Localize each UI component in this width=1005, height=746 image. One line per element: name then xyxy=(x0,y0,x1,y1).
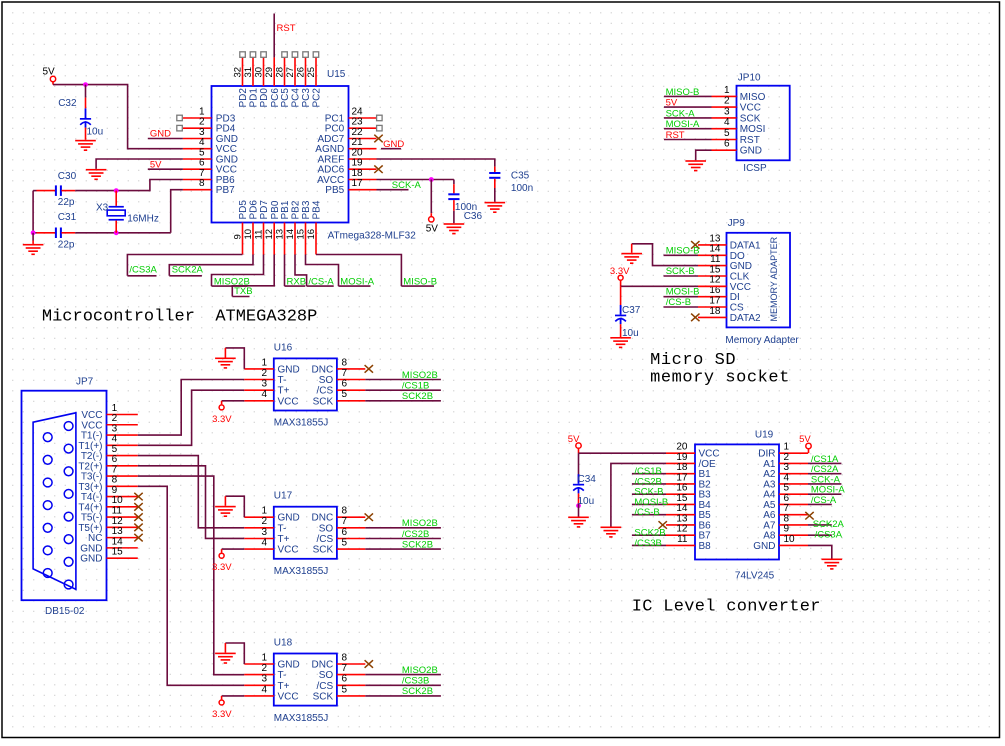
svg-text:2: 2 xyxy=(261,516,267,527)
svg-text:9: 9 xyxy=(233,234,244,239)
svg-text:SCK2B: SCK2B xyxy=(402,391,433,402)
svg-text:PB7: PB7 xyxy=(216,185,235,196)
svg-text:C35: C35 xyxy=(511,171,530,182)
svg-text:PB2: PB2 xyxy=(291,200,302,219)
svg-text:U17: U17 xyxy=(274,491,293,502)
svg-text:SCK: SCK xyxy=(740,113,761,124)
svg-text:MISO-B: MISO-B xyxy=(666,245,700,256)
svg-text:C30: C30 xyxy=(58,171,77,182)
svg-text:T-: T- xyxy=(278,375,287,386)
svg-text:6: 6 xyxy=(342,527,348,538)
svg-text:PB1: PB1 xyxy=(280,200,291,219)
svg-text:GND: GND xyxy=(383,139,404,150)
svg-text:SO: SO xyxy=(319,523,334,534)
svg-text:RST: RST xyxy=(277,23,296,34)
svg-text:GND: GND xyxy=(730,261,752,272)
svg-text:MOSI-A: MOSI-A xyxy=(340,276,374,287)
svg-text:32: 32 xyxy=(233,67,244,78)
svg-text:PC3: PC3 xyxy=(301,88,312,108)
svg-text:PC4: PC4 xyxy=(291,88,302,108)
svg-text:/CS-B: /CS-B xyxy=(666,297,691,308)
svg-text:5V: 5V xyxy=(43,67,56,78)
svg-text:PB4: PB4 xyxy=(312,200,323,219)
svg-text:2: 2 xyxy=(261,368,267,379)
svg-text:U15: U15 xyxy=(327,69,346,80)
svg-text:SCK-A: SCK-A xyxy=(666,108,696,119)
svg-text:4: 4 xyxy=(261,389,267,400)
svg-text:RXB: RXB xyxy=(287,276,307,287)
svg-text:SCK2A: SCK2A xyxy=(172,264,204,275)
svg-text:U18: U18 xyxy=(274,637,293,648)
svg-text:18: 18 xyxy=(709,306,721,317)
svg-text:T-: T- xyxy=(278,670,287,681)
svg-text:3: 3 xyxy=(261,674,267,685)
svg-text:7: 7 xyxy=(342,368,348,379)
svg-text:6: 6 xyxy=(724,139,730,150)
svg-text:SO: SO xyxy=(319,670,334,681)
svg-text:MISO: MISO xyxy=(740,92,766,103)
svg-text:RST: RST xyxy=(666,130,685,141)
svg-text:5: 5 xyxy=(342,684,348,695)
svg-text:GND: GND xyxy=(278,660,300,671)
svg-text:6: 6 xyxy=(342,674,348,685)
svg-text:PC5: PC5 xyxy=(280,88,291,108)
svg-text:JP10: JP10 xyxy=(738,72,761,83)
svg-text:PD6: PD6 xyxy=(249,200,260,220)
svg-text:B8: B8 xyxy=(699,541,712,552)
svg-text:14: 14 xyxy=(285,229,296,240)
svg-text:/CS3A: /CS3A xyxy=(815,529,843,540)
svg-text:RST: RST xyxy=(740,135,760,146)
svg-text:SCK: SCK xyxy=(313,396,334,407)
svg-text:SCK2B: SCK2B xyxy=(402,686,433,697)
svg-text:VCC: VCC xyxy=(278,396,299,407)
svg-text:MOSI: MOSI xyxy=(740,124,766,135)
svg-text:3: 3 xyxy=(261,527,267,538)
svg-text:MISO2B: MISO2B xyxy=(402,518,438,529)
svg-text:28: 28 xyxy=(275,67,286,78)
svg-text:10u: 10u xyxy=(578,496,595,507)
svg-text:/CS-A: /CS-A xyxy=(811,495,837,506)
svg-text:10: 10 xyxy=(784,534,796,545)
svg-text:/CS3A: /CS3A xyxy=(129,264,157,275)
svg-text:GND: GND xyxy=(150,129,171,140)
svg-text:SCK: SCK xyxy=(313,545,334,556)
svg-text:25: 25 xyxy=(306,67,317,78)
svg-text:2: 2 xyxy=(261,663,267,674)
svg-text:/CS: /CS xyxy=(317,681,334,692)
svg-text:/CS-A: /CS-A xyxy=(308,276,334,287)
svg-text:/CS3B: /CS3B xyxy=(402,676,429,687)
svg-text:MAX31855J: MAX31855J xyxy=(274,713,328,724)
svg-text:5V: 5V xyxy=(150,160,162,171)
svg-text:15: 15 xyxy=(296,229,307,240)
svg-text:C36: C36 xyxy=(464,211,483,222)
svg-text:C31: C31 xyxy=(58,212,77,223)
svg-text:3: 3 xyxy=(724,106,730,117)
svg-text:MEMORY ADAPTER: MEMORY ADAPTER xyxy=(769,236,779,321)
svg-text:SCK2B: SCK2B xyxy=(402,539,433,550)
svg-text:/CS-B: /CS-B xyxy=(634,507,659,518)
svg-text:11: 11 xyxy=(710,254,721,265)
svg-text:GND: GND xyxy=(278,513,300,524)
svg-text:PD2: PD2 xyxy=(238,88,249,108)
svg-text:T+: T+ xyxy=(278,681,290,692)
svg-text:Memory Adapter: Memory Adapter xyxy=(725,335,799,346)
svg-text:JP7: JP7 xyxy=(76,376,94,387)
svg-text:8: 8 xyxy=(199,178,205,189)
svg-text:VCC: VCC xyxy=(730,282,751,293)
svg-text:27: 27 xyxy=(285,67,296,78)
svg-text:Micro SD: Micro SD xyxy=(650,351,736,370)
svg-text:T+: T+ xyxy=(278,534,290,545)
svg-text:MAX31855J: MAX31855J xyxy=(274,418,328,429)
svg-text:4: 4 xyxy=(724,117,730,128)
svg-text:U16: U16 xyxy=(274,342,293,353)
svg-text:100n: 100n xyxy=(511,183,533,194)
svg-text:1: 1 xyxy=(261,357,267,368)
svg-text:C32: C32 xyxy=(58,98,77,109)
svg-text:PD5: PD5 xyxy=(238,200,249,220)
svg-text:3.3V: 3.3V xyxy=(212,709,232,720)
svg-text:/CS3B: /CS3B xyxy=(634,538,661,549)
svg-text:31: 31 xyxy=(243,67,254,78)
svg-text:T+: T+ xyxy=(278,386,290,397)
svg-text:5: 5 xyxy=(342,389,348,400)
svg-text:DB15-02: DB15-02 xyxy=(45,606,85,617)
svg-text:TXB: TXB xyxy=(234,286,252,297)
svg-text:MISO-B: MISO-B xyxy=(403,276,437,287)
svg-text:GND: GND xyxy=(740,146,762,157)
svg-text:4: 4 xyxy=(261,538,267,549)
svg-text:22p: 22p xyxy=(58,239,75,250)
svg-text:C34: C34 xyxy=(578,474,597,485)
svg-text:DNC: DNC xyxy=(312,364,334,375)
svg-text:MISO-B: MISO-B xyxy=(666,87,700,98)
svg-text:7: 7 xyxy=(342,663,348,674)
svg-text:MAX31855J: MAX31855J xyxy=(274,566,328,577)
svg-text:PB3: PB3 xyxy=(301,200,312,219)
svg-text:C37: C37 xyxy=(622,305,641,316)
svg-text:U19: U19 xyxy=(755,429,774,440)
svg-text:SO: SO xyxy=(319,375,334,386)
svg-text:6: 6 xyxy=(342,379,348,390)
svg-text:PB5: PB5 xyxy=(325,185,344,196)
svg-text:26: 26 xyxy=(296,67,307,78)
svg-text:/CS2B: /CS2B xyxy=(402,529,429,540)
svg-text:SCK-A: SCK-A xyxy=(392,180,422,191)
svg-text:SCK-B: SCK-B xyxy=(666,266,695,277)
svg-text:T-: T- xyxy=(278,523,287,534)
svg-text:13: 13 xyxy=(709,233,721,244)
svg-text:GND: GND xyxy=(278,364,300,375)
svg-text:3: 3 xyxy=(261,379,267,390)
svg-text:PD0: PD0 xyxy=(259,88,270,108)
svg-text:VCC: VCC xyxy=(278,545,299,556)
svg-text:1: 1 xyxy=(724,85,730,96)
svg-text:DATA1: DATA1 xyxy=(730,240,761,251)
svg-text:JP9: JP9 xyxy=(728,218,746,229)
svg-text:16MHz: 16MHz xyxy=(127,213,159,224)
svg-text:MISO2B: MISO2B xyxy=(402,665,438,676)
svg-text:10: 10 xyxy=(243,229,254,240)
svg-text:5: 5 xyxy=(724,128,730,139)
svg-text:12: 12 xyxy=(709,275,721,286)
svg-text:/CS: /CS xyxy=(317,534,334,545)
svg-text:PC2: PC2 xyxy=(312,88,323,108)
svg-text:30: 30 xyxy=(254,67,265,78)
svg-text:4: 4 xyxy=(261,684,267,695)
svg-text:10u: 10u xyxy=(87,127,104,138)
svg-text:ATmega328-MLF32: ATmega328-MLF32 xyxy=(328,230,417,241)
svg-text:/CS1B: /CS1B xyxy=(402,381,429,392)
svg-text:2: 2 xyxy=(724,96,730,107)
svg-text:10u: 10u xyxy=(622,328,639,339)
svg-text:Microcontroller ATMEGA328P: Microcontroller ATMEGA328P xyxy=(42,307,317,326)
svg-text:PD1: PD1 xyxy=(249,88,260,108)
svg-text:1: 1 xyxy=(261,506,267,517)
svg-text:SCK: SCK xyxy=(313,691,334,702)
svg-text:1: 1 xyxy=(261,652,267,663)
svg-text:22p: 22p xyxy=(58,197,75,208)
svg-text:5: 5 xyxy=(342,538,348,549)
svg-text:DATA2: DATA2 xyxy=(730,313,761,324)
svg-text:13: 13 xyxy=(275,229,286,240)
svg-text:PD7: PD7 xyxy=(259,200,270,220)
svg-text:CS: CS xyxy=(730,303,744,314)
svg-text:VCC: VCC xyxy=(278,691,299,702)
svg-text:GND: GND xyxy=(80,554,102,565)
svg-text:3.3V: 3.3V xyxy=(212,414,232,425)
svg-text:memory socket: memory socket xyxy=(650,369,790,388)
svg-text:16: 16 xyxy=(306,229,317,240)
svg-text:7: 7 xyxy=(342,516,348,527)
svg-text:5V: 5V xyxy=(426,224,439,235)
svg-text:17: 17 xyxy=(352,178,364,189)
svg-text:11: 11 xyxy=(254,230,265,240)
svg-text:VCC: VCC xyxy=(740,103,761,114)
svg-text:/CS: /CS xyxy=(317,386,334,397)
svg-text:15: 15 xyxy=(112,547,124,558)
svg-text:3.3V: 3.3V xyxy=(212,562,232,573)
svg-text:8: 8 xyxy=(342,357,348,368)
svg-text:X3: X3 xyxy=(96,203,109,214)
svg-text:17: 17 xyxy=(709,295,721,306)
svg-text:IC Level converter: IC Level converter xyxy=(632,597,821,616)
svg-text:GND: GND xyxy=(753,541,775,552)
svg-text:ICSP: ICSP xyxy=(743,163,767,174)
svg-text:DNC: DNC xyxy=(312,660,334,671)
svg-text:74LV245: 74LV245 xyxy=(735,570,775,581)
svg-text:MOSI-A: MOSI-A xyxy=(666,119,700,130)
svg-text:MISO2B: MISO2B xyxy=(402,370,438,381)
svg-text:8: 8 xyxy=(342,652,348,663)
svg-text:11: 11 xyxy=(677,534,688,545)
svg-text:8: 8 xyxy=(342,506,348,517)
svg-text:5V: 5V xyxy=(666,98,678,109)
svg-text:DNC: DNC xyxy=(312,513,334,524)
